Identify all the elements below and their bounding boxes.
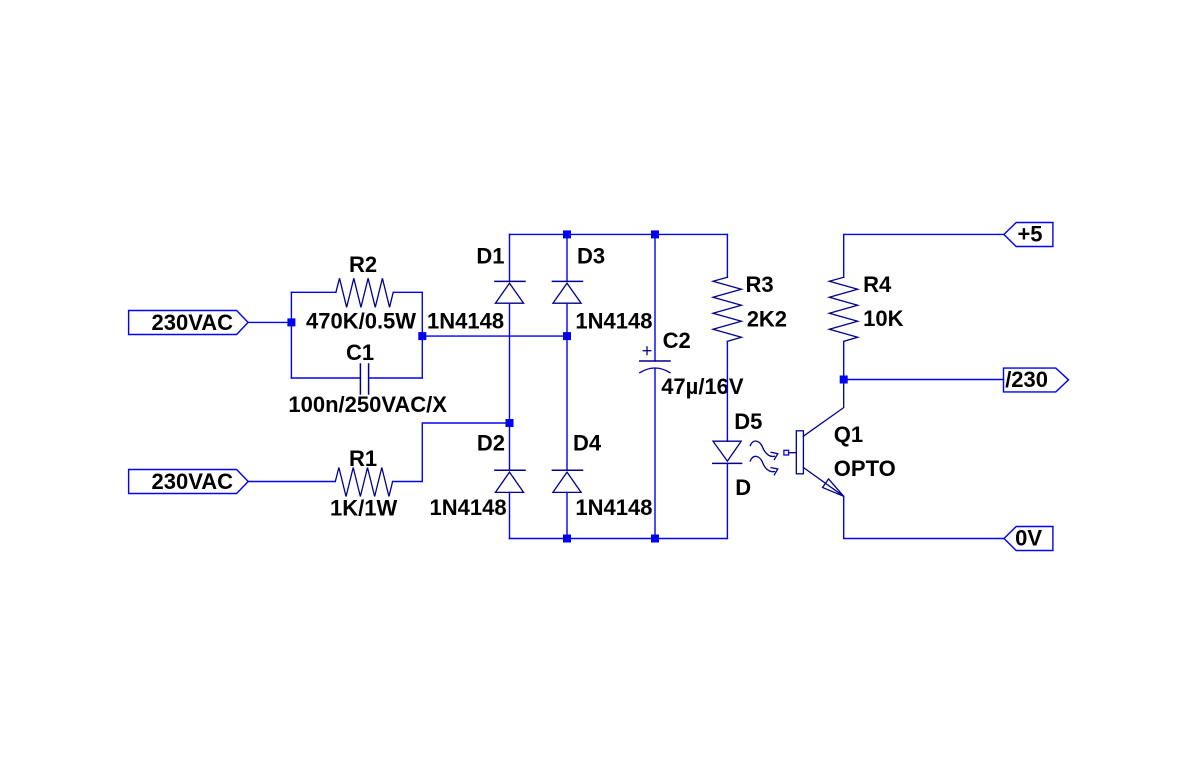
Q1 collector lead: [803, 380, 843, 437]
wire emitter down to 0V rail: [844, 496, 1004, 538]
junction node AC1/D3-D4: [563, 332, 571, 340]
Q1 emitter lead: [803, 468, 843, 497]
wire C1 to right side: [369, 377, 423, 379]
wire C2 positive lead: [654, 234, 656, 361]
svg-text:/230: /230: [1005, 367, 1048, 392]
svg-text:10K: 10K: [863, 306, 903, 331]
LED D5: [713, 441, 742, 463]
junction collector //230 node: [840, 376, 848, 384]
resistor R2: [336, 278, 393, 307]
net flag 230VAC (top input): [129, 311, 249, 335]
wire top rail to R2: [291, 291, 336, 293]
svg-text:1N4148: 1N4148: [575, 308, 652, 333]
wire bridge positive top rail: [510, 233, 728, 235]
svg-text:2K2: 2K2: [747, 307, 787, 332]
svg-text:+5: +5: [1017, 222, 1042, 247]
svg-text:1N4148: 1N4148: [430, 495, 507, 520]
wire D4 anode to bottom rail: [566, 492, 568, 538]
phototransistor Q1 base plate: [796, 431, 803, 474]
resistor R3: [713, 277, 741, 341]
wire +5 rail to R4: [843, 234, 845, 277]
wire R1 to corner: [393, 423, 510, 482]
junction bottom rail / D4: [563, 535, 571, 543]
svg-text:R2: R2: [349, 252, 377, 277]
svg-text:R4: R4: [863, 272, 892, 297]
svg-text:1N4148: 1N4148: [427, 308, 504, 333]
capacitor C1: [360, 364, 368, 394]
wire D5 cathode to bottom rail: [726, 463, 728, 538]
junction top rail / C2: [651, 230, 659, 238]
Q1 emitter arrowhead: [823, 479, 844, 496]
svg-text:D3: D3: [577, 243, 605, 268]
svg-text:Q1: Q1: [834, 422, 863, 447]
svg-text:D4: D4: [573, 431, 602, 456]
wire right side of R2/C1 loop: [421, 292, 423, 378]
opto light arrow 1: [750, 441, 778, 460]
wire bottom rail to C1: [291, 377, 360, 379]
wire D1 cathode to top rail: [509, 234, 511, 281]
wire top rail to R3: [726, 234, 728, 277]
diode D3: [552, 281, 582, 303]
phototransistor Q1 base light pin square: [784, 450, 789, 455]
svg-text:D1: D1: [476, 243, 504, 268]
capacitor C2 (electrolytic): [640, 347, 670, 373]
wire flag1 to node A: [248, 321, 291, 323]
svg-text:230VAC: 230VAC: [152, 469, 234, 494]
svg-text:D: D: [735, 475, 751, 500]
svg-text:1K/1W: 1K/1W: [330, 496, 397, 521]
resistor R4: [829, 277, 857, 341]
wire /230 output: [844, 379, 1004, 381]
svg-text:470K/0.5W: 470K/0.5W: [306, 308, 416, 333]
junction bottom rail / C2: [651, 535, 659, 543]
net flag +5: [1004, 223, 1053, 247]
wire D3 cathode to top rail: [566, 234, 568, 281]
wire AC1 to bridge: [422, 335, 567, 337]
svg-text:1N4148: 1N4148: [575, 495, 652, 520]
wire R4 to collector node: [843, 341, 845, 379]
net flag /230: [1004, 368, 1069, 392]
wire D3 anode / D4 cathode column: [566, 303, 568, 470]
svg-text:C1: C1: [346, 340, 374, 365]
svg-text:R3: R3: [746, 272, 774, 297]
diode D2: [495, 470, 525, 492]
diode D4: [552, 470, 582, 492]
svg-text:0V: 0V: [1015, 526, 1042, 551]
svg-text:230VAC: 230VAC: [152, 310, 234, 335]
junction top rail / D3: [563, 230, 571, 238]
svg-text:R1: R1: [349, 446, 377, 471]
svg-text:C2: C2: [663, 328, 691, 353]
wire +5 rail: [844, 233, 1004, 235]
wire D2 anode to bottom rail: [509, 492, 511, 538]
svg-text:100n/250VAC/X: 100n/250VAC/X: [288, 392, 447, 417]
svg-text:D5: D5: [734, 409, 762, 434]
wire base stub: [789, 452, 797, 454]
wire R3 to D5 anode: [726, 341, 728, 441]
wire left side of R2/C1 loop: [290, 292, 292, 378]
junction node B (AC1): [418, 332, 426, 340]
wire D1 anode down to AC2 node: [509, 303, 511, 423]
diode D1: [495, 281, 525, 303]
opto light arrow 2: [750, 456, 778, 475]
wire D2 cathode from AC2 node: [509, 423, 511, 470]
wire R2 to right side: [393, 291, 422, 293]
svg-text:47µ/16V: 47µ/16V: [661, 374, 744, 399]
resistor R1: [335, 468, 392, 497]
net flag 230VAC (bottom input): [129, 470, 249, 494]
wire bridge negative bottom rail: [510, 538, 728, 540]
wire C2 negative lead: [654, 368, 656, 538]
net flag 0V: [1004, 527, 1053, 551]
wire flag2 to R1: [248, 481, 335, 483]
svg-text:OPTO: OPTO: [834, 456, 896, 481]
junction node AC2/D1-D2: [506, 419, 514, 427]
junction node A: [287, 318, 295, 326]
svg-text:D2: D2: [477, 431, 505, 456]
